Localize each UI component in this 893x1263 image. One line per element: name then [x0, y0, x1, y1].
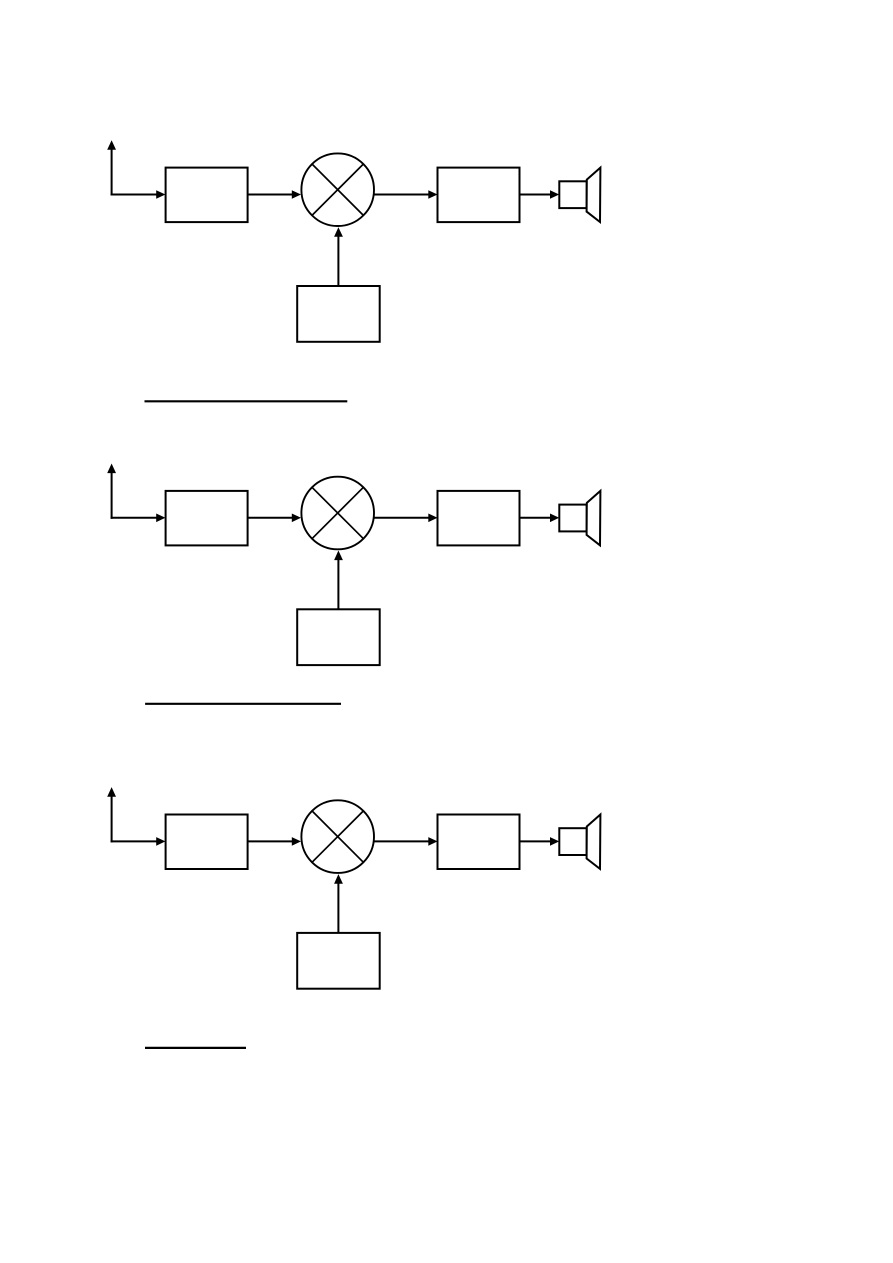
wire: block B1b to loudspeaker LS1 [520, 190, 560, 199]
local oscillator block LO1 [297, 286, 380, 342]
wire: block B2a to mixer M2 [248, 514, 301, 523]
wire: antenna A3 to RF amplifier block B3a [111, 837, 166, 846]
antenna A3 (up-arrow) [107, 787, 116, 842]
mixer M2 (circle with X) [301, 477, 374, 550]
antenna A2 (up-arrow) [107, 464, 116, 519]
wire: block B1a to mixer M1 [248, 190, 301, 199]
RF amplifier block B1a [166, 168, 248, 223]
local oscillator block LO2 [297, 609, 380, 665]
loudspeaker LS3 [559, 815, 600, 869]
caption underline 3 [145, 1047, 246, 1049]
mixer M1 (circle with X) [301, 153, 374, 226]
antenna A1 (up-arrow) [107, 140, 116, 195]
caption underline 2 [145, 703, 341, 705]
RF amplifier block B2a [166, 491, 248, 546]
loudspeaker LS2 [559, 491, 600, 545]
wire: mixer M2 to IF amplifier block B2b [374, 514, 438, 523]
caption underline 1 [145, 400, 348, 402]
wire: local oscillator LO3 to mixer M3 [334, 874, 343, 933]
wire: antenna A2 to RF amplifier block B2a [111, 514, 166, 523]
IF amplifier block B3b [438, 815, 520, 870]
wire: block B3b to loudspeaker LS3 [520, 837, 560, 846]
wire: block B2b to loudspeaker LS2 [520, 514, 560, 523]
IF amplifier block B1b [438, 168, 520, 223]
local oscillator block LO3 [297, 933, 380, 989]
RF amplifier block B3a [166, 815, 248, 870]
loudspeaker LS1 [559, 168, 600, 222]
wire: antenna A1 to RF amplifier block B1a [111, 190, 166, 199]
wire: mixer M1 to IF amplifier block B1b [374, 190, 438, 199]
wire: local oscillator LO1 to mixer M1 [334, 227, 343, 286]
wire: mixer M3 to IF amplifier block B3b [374, 837, 438, 846]
wire: block B3a to mixer M3 [248, 837, 301, 846]
IF amplifier block B2b [438, 491, 520, 546]
mixer M3 (circle with X) [301, 800, 374, 873]
wire: local oscillator LO2 to mixer M2 [334, 551, 343, 610]
